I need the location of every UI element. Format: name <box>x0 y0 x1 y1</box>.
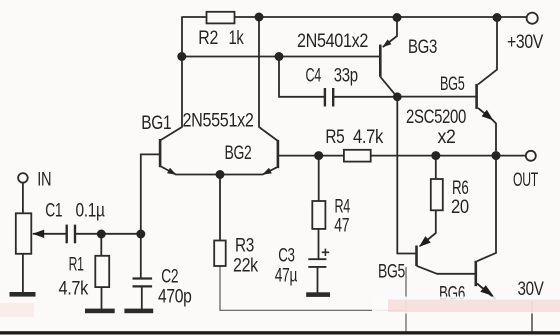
wire R1 bottom lead <box>101 287 103 309</box>
wire IN to pot <box>22 183 24 214</box>
transistor BG3 2N5401 <box>379 18 397 97</box>
wire R3 bottom to negative rail <box>220 266 403 310</box>
wire lower mid vertical remnant <box>405 268 407 332</box>
plus sign C3 <box>322 249 330 256</box>
wire BG1 base <box>141 154 159 234</box>
wire R6 bottom to BG5 lower emitter <box>435 210 437 233</box>
node dot BG3 emitter top <box>393 13 402 22</box>
svg-text:47: 47 <box>334 216 349 237</box>
svg-text:2N5401x2: 2N5401x2 <box>297 31 368 52</box>
svg-text:OUT: OUT <box>513 170 539 191</box>
svg-text:R6: R6 <box>452 178 469 199</box>
capacitor C1 0.1u <box>67 225 75 244</box>
wire BG1 collector node rail y56 <box>182 56 379 58</box>
capacitor C2 470p <box>133 279 153 287</box>
svg-text:47µ: 47µ <box>275 265 298 286</box>
wire BG2 collector vertical <box>259 17 277 141</box>
svg-text:2SC5200: 2SC5200 <box>406 107 466 128</box>
wire C4 left branch <box>279 57 324 97</box>
wire -30V vertical <box>531 302 533 332</box>
svg-text:22k: 22k <box>233 255 259 276</box>
capacitor C4 33p <box>325 88 333 107</box>
wire C2 bottom lead <box>141 288 143 309</box>
node dot BG5 collector top <box>493 13 502 22</box>
ground C3 <box>306 292 330 297</box>
wire output rail <box>279 155 527 157</box>
wire top +30V rail <box>183 16 528 18</box>
potentiometer input <box>16 213 31 254</box>
svg-text:4.7k: 4.7k <box>59 278 89 299</box>
wire R4 top lead <box>318 156 320 201</box>
svg-text:R2: R2 <box>198 28 218 49</box>
svg-text:BG2: BG2 <box>225 143 252 164</box>
svg-text:BG1: BG1 <box>141 113 171 134</box>
svg-text:33p: 33p <box>334 66 358 87</box>
ground pot <box>10 292 36 297</box>
node dot common emitters <box>216 170 225 179</box>
transistor BG5 lower driver 2N5401 <box>415 233 437 274</box>
resistor R2 1k <box>207 12 235 24</box>
wire BG6 base from BG5 collector <box>437 273 475 275</box>
svg-text:R1: R1 <box>69 255 84 276</box>
wire R1 top lead <box>100 234 102 256</box>
wire R3 top lead <box>219 175 221 241</box>
transistor BG6 output <box>475 156 497 299</box>
transistor BG2 <box>263 140 279 175</box>
svg-text:R5: R5 <box>325 127 344 148</box>
bottom border line <box>0 331 560 334</box>
svg-text:IN: IN <box>37 169 51 190</box>
svg-text:C1: C1 <box>45 200 62 221</box>
svg-text:+30V: +30V <box>507 32 544 53</box>
resistor R1 4.7k <box>95 256 109 287</box>
svg-text:C2: C2 <box>161 267 178 288</box>
resistor R4 47 <box>312 201 325 229</box>
svg-text:R4: R4 <box>335 197 351 218</box>
transistor BG5 top 2SC5200 <box>475 18 497 156</box>
wire pot wiper <box>34 233 67 235</box>
terminal +30V <box>527 13 538 24</box>
wire left vertical to BG1 collector <box>161 17 182 140</box>
svg-text:C3: C3 <box>278 246 295 267</box>
svg-text:0.1µ: 0.1µ <box>76 200 105 221</box>
wire common emitter rail <box>176 174 263 176</box>
capacitor C3 47u electrolytic <box>308 259 326 267</box>
node dot output emitter <box>492 151 501 160</box>
wire BG5 lower base <box>397 253 415 255</box>
pink smudge bottom left <box>0 303 34 317</box>
pink watermark band <box>388 300 560 313</box>
node dot R6 top <box>431 151 440 160</box>
whiteout band bottom <box>372 297 560 314</box>
node dot C2 base <box>136 230 145 239</box>
wire VAS collector vertical (BG3 collector down to driver base) <box>396 97 398 254</box>
resistor R3 22k <box>214 241 226 267</box>
svg-text:R3: R3 <box>235 235 254 256</box>
wire C2 top lead <box>140 234 142 278</box>
svg-text:1k: 1k <box>229 28 245 49</box>
node dot feedback R4 <box>314 151 323 160</box>
wire BG5 top base <box>397 96 475 98</box>
wire R4 to C3 <box>318 229 320 259</box>
wire pot to ground <box>22 254 24 292</box>
svg-text:20: 20 <box>451 197 469 218</box>
terminal OUT <box>526 151 536 161</box>
wire R6 top lead <box>435 156 437 179</box>
resistor R6 20 <box>431 179 443 210</box>
terminal IN <box>18 173 28 183</box>
ground R1 <box>85 309 115 314</box>
svg-text:2N5551x2: 2N5551x2 <box>183 111 254 132</box>
svg-text:C4: C4 <box>306 65 322 86</box>
wire C3 to ground <box>317 268 319 293</box>
node dot C4 left branch <box>275 52 284 61</box>
node dot BG2 collector top <box>255 13 264 22</box>
node dot C4 right VAS <box>393 92 402 101</box>
svg-text:4.7k: 4.7k <box>353 127 384 148</box>
wire C4 right lead <box>334 96 397 98</box>
resistor R5 4.7k <box>344 150 371 162</box>
transistor BG1 <box>159 139 176 175</box>
svg-text:BG5: BG5 <box>440 74 465 95</box>
ground C2 <box>124 309 153 314</box>
node dot R2 left <box>177 52 186 61</box>
wire C1 right lead <box>75 233 141 235</box>
svg-text:BG3: BG3 <box>408 37 437 58</box>
svg-text:470p: 470p <box>158 287 192 308</box>
svg-text:BG5: BG5 <box>378 261 405 282</box>
svg-text:x2: x2 <box>438 127 456 148</box>
node dot C1 R1 <box>97 230 106 239</box>
